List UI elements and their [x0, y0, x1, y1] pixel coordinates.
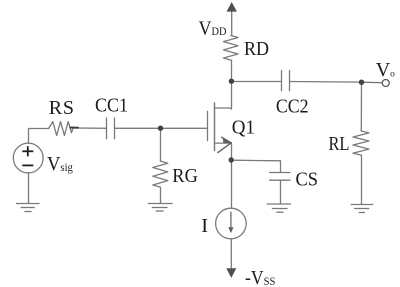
label RL [329, 133, 350, 155]
transistor Q1 gate bar [207, 111, 209, 140]
node at source [229, 157, 234, 162]
ground at Vsig [16, 204, 40, 212]
transistor Q1 drain lead [215, 82, 232, 110]
label Q1 [232, 117, 255, 139]
wire gate node down to RG [160, 129, 162, 162]
label Vsig [47, 153, 73, 175]
node at output [359, 80, 364, 85]
svg-text:CS: CS [296, 169, 319, 191]
VDD arrowhead [227, 2, 237, 12]
wire RS to CC1 [78, 127, 107, 129]
wire CC2 to output node [290, 81, 362, 84]
current source I [216, 208, 247, 239]
resistor RD [224, 36, 239, 61]
wire output node down to RL [360, 82, 362, 131]
label CC2 [276, 96, 309, 118]
wire output node to Vo terminal [362, 81, 383, 84]
label CS [296, 169, 319, 191]
svg-text:CC2: CC2 [276, 96, 309, 118]
label RD [244, 38, 269, 60]
ground at RL [351, 205, 374, 213]
svg-text:Q1: Q1 [232, 117, 255, 139]
voltage source V_sig [13, 143, 43, 173]
capacitor CS [270, 172, 290, 174]
ground at CS [267, 204, 291, 212]
svg-text:RL: RL [329, 133, 350, 155]
label RG [172, 165, 198, 187]
transistor Q1 source lead [215, 143, 232, 160]
svg-text:RG: RG [172, 165, 198, 187]
label -VSS [245, 267, 275, 287]
label CC1 [95, 95, 128, 117]
wire RG to ground [160, 187, 162, 203]
wire drain node up to RD [231, 60, 233, 81]
wire source node to CS [232, 160, 281, 172]
wire CC1 to gate [115, 127, 208, 129]
plus sign of Vsig [22, 146, 33, 156]
node at gate [158, 126, 163, 131]
wire RD up to VDD arrow [231, 10, 233, 36]
svg-text:RS: RS [49, 97, 75, 119]
wire Vsig top to RS [29, 129, 49, 144]
capacitor CC1 [106, 118, 108, 139]
transistor Q1 source arrow [218, 137, 232, 152]
wire current source to -VSS arrow [230, 239, 232, 269]
ground at RG [148, 204, 173, 212]
-VSS arrowhead [226, 268, 236, 278]
wire CS to ground [280, 180, 282, 204]
resistor RG [153, 161, 168, 187]
node at drain [229, 79, 234, 84]
capacitor CC2 [281, 71, 283, 91]
wire RL to ground [361, 155, 363, 204]
svg-text:CC1: CC1 [95, 95, 128, 117]
wire Vsig bottom to ground [28, 173, 30, 204]
resistor RL [353, 131, 369, 155]
current source internal arrowhead [228, 227, 233, 233]
minus sign of Vsig [22, 164, 33, 166]
Vo output terminal [382, 80, 389, 87]
label VDD [199, 18, 227, 40]
wire drain node to CC2 [232, 81, 282, 83]
wire source node down to current source [231, 160, 233, 208]
svg-text:RD: RD [244, 38, 269, 60]
svg-text:I: I [201, 215, 208, 237]
resistor RS [49, 122, 74, 136]
transistor Q1 channel bar [214, 103, 216, 150]
